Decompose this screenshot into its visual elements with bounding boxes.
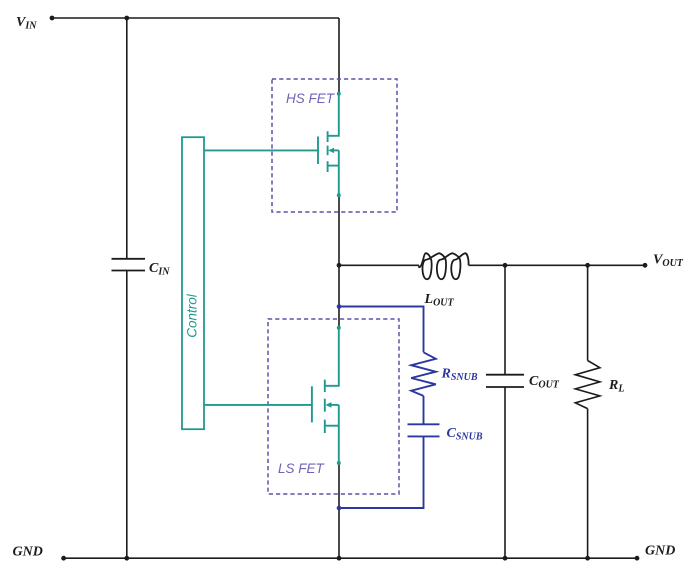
wire: main rail top (VIN to HS drain): [338, 18, 340, 94]
wire: COUT branch lower: [504, 387, 506, 558]
node: RL bottom junction: [585, 556, 590, 561]
wire: CIN branch upper: [126, 18, 128, 259]
wire: HS gate lead: [204, 149, 318, 151]
node: switch node junction: [337, 263, 342, 268]
wire: LS gate lead: [204, 404, 312, 406]
HS gate bar: [317, 137, 319, 165]
LS gate bar: [311, 386, 313, 422]
svg-text:RL: RL: [608, 378, 624, 395]
HS body arrow: [328, 148, 334, 153]
node: LS source dot: [337, 461, 341, 465]
HS source lead: [328, 165, 339, 167]
node: COUT top junction: [503, 263, 508, 268]
svg-text:GND: GND: [13, 545, 43, 560]
wire: LS source vertical: [338, 405, 340, 463]
wire: RSNUB to CSNUB: [423, 396, 425, 424]
wire: main rail bottom (LS source to GND): [338, 463, 340, 558]
wire: output rail: [339, 264, 419, 266]
control block: [182, 137, 204, 429]
inductor L_OUT: [419, 253, 469, 279]
node: RL top junction: [585, 263, 590, 268]
svg-text:GND: GND: [645, 544, 675, 559]
svg-text:LOUT: LOUT: [424, 292, 455, 309]
node: HS source dot: [337, 193, 341, 197]
resistor R_L: [575, 361, 600, 409]
wire: top rail VIN: [52, 17, 339, 19]
snubber network (blue): [339, 307, 440, 509]
resistor R_SNUB: [411, 352, 436, 396]
wire: bottom rail GND: [64, 557, 637, 559]
LS drain lead: [325, 328, 339, 386]
capacitor C_OUT: [486, 374, 524, 376]
node: junction top of CIN: [124, 16, 129, 21]
wire: snubber top: [339, 307, 424, 353]
LS body lead: [328, 404, 339, 406]
LS body arrow: [325, 402, 331, 408]
LS source lead: [325, 425, 339, 427]
node: LS drain dot: [337, 326, 341, 330]
svg-text:LS FET: LS FET: [278, 461, 326, 476]
svg-text:VOUT: VOUT: [653, 253, 684, 270]
dashed box HS FET: [272, 79, 397, 212]
node: GND right terminal dot: [635, 556, 640, 561]
svg-text:VIN: VIN: [16, 15, 37, 32]
wire: main rail mid (HS source to LS drain): [338, 195, 340, 327]
node: CIN bottom junction: [124, 556, 129, 561]
node: HS drain dot: [337, 92, 341, 96]
wire: HS source vertical: [338, 150, 340, 195]
wire: RL branch lower: [587, 409, 589, 559]
capacitor C_IN: [112, 258, 146, 260]
HS drain lead: [328, 94, 339, 136]
dashed box LS FET: [268, 319, 399, 494]
node: snubber bottom tap dot: [337, 506, 342, 511]
wire: CIN branch lower: [126, 271, 128, 559]
svg-text:RSNUB: RSNUB: [441, 366, 478, 383]
transistor LS FET symbol: [204, 328, 339, 463]
svg-text:CSNUB: CSNUB: [447, 426, 483, 443]
wire: COUT branch upper: [504, 265, 506, 374]
node VIN terminal dot: [50, 16, 55, 21]
node: GND left terminal dot: [61, 556, 66, 561]
svg-text:CIN: CIN: [149, 261, 170, 278]
wire: output rail right: [469, 264, 645, 266]
capacitor C_SNUB: [408, 423, 440, 425]
node: snubber top tap dot: [337, 304, 342, 309]
svg-text:HS FET: HS FET: [286, 91, 336, 106]
LS channel segments: [324, 380, 326, 392]
wire: RL branch upper: [587, 265, 589, 360]
HS body lead: [331, 149, 339, 151]
transistor HS FET symbol: [204, 94, 339, 196]
svg-text:COUT: COUT: [529, 374, 560, 391]
node: main rail bottom junction: [337, 556, 342, 561]
node: COUT bottom junction: [503, 556, 508, 561]
HS channel segments: [327, 131, 329, 142]
node: VOUT terminal dot: [643, 263, 648, 268]
svg-text:Control: Control: [185, 293, 200, 338]
wire: snubber bottom: [339, 436, 424, 508]
